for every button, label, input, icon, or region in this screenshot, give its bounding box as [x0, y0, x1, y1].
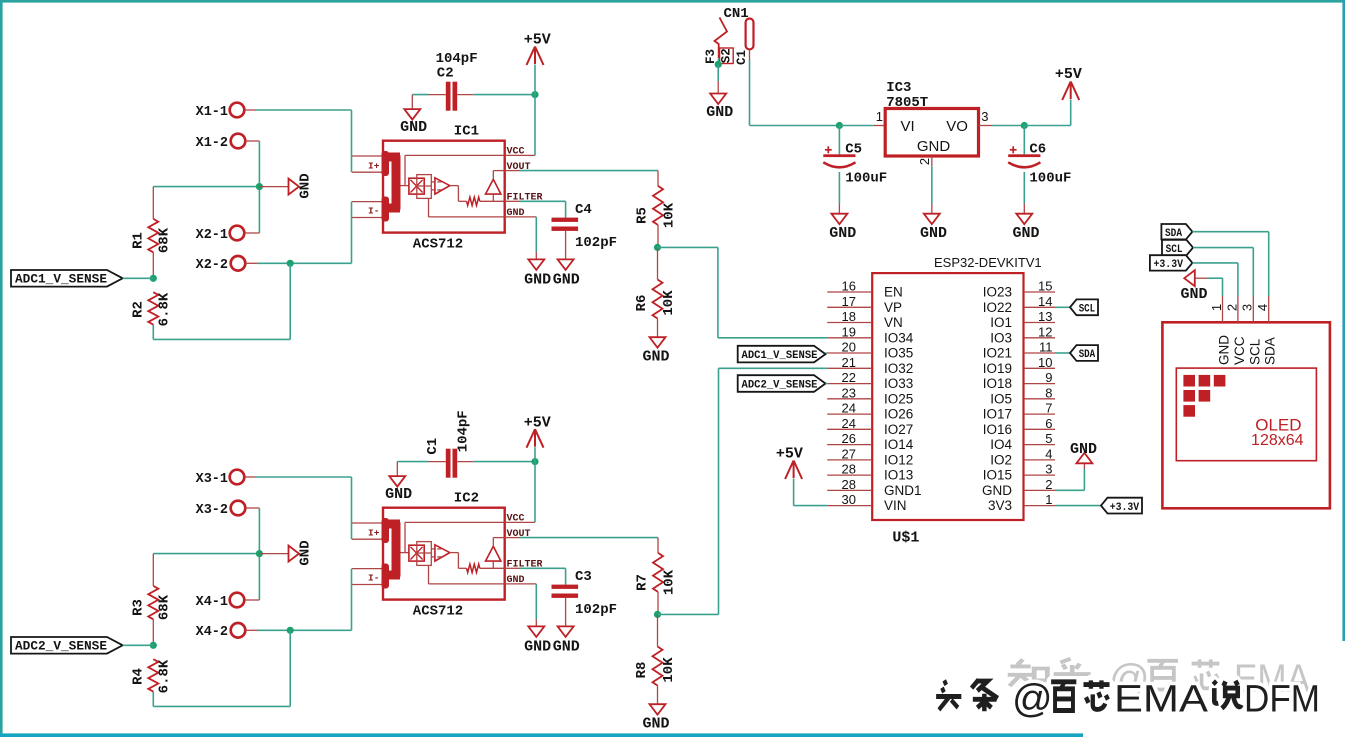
svg-text:GND: GND: [829, 225, 856, 242]
wire: [520, 537, 658, 539]
net label ADC2_V_SENSE: [11, 637, 123, 654]
svg-text:EN: EN: [884, 285, 903, 300]
hall sensor: [409, 545, 424, 561]
wire: [1192, 231, 1268, 233]
svg-text:10K: 10K: [661, 290, 677, 316]
svg-text:GND: GND: [642, 716, 669, 733]
wire: [534, 65, 536, 95]
svg-text:GND: GND: [298, 540, 314, 565]
svg-text:16: 16: [842, 279, 856, 294]
svg-text:GND: GND: [1012, 225, 1039, 242]
pin I-: [352, 201, 383, 203]
power +5V: [534, 429, 536, 447]
svg-text:GND: GND: [524, 271, 551, 288]
svg-text:C3: C3: [575, 569, 592, 585]
svg-text:GND: GND: [920, 225, 947, 242]
svg-text:C6: C6: [1029, 142, 1046, 158]
pin 13 IO1: [1024, 322, 1056, 324]
ground: [710, 94, 726, 105]
svg-text:28: 28: [842, 477, 856, 492]
connector X1-2: [231, 134, 246, 149]
svg-text:IO1: IO1: [990, 315, 1012, 330]
pin 26 IO14: [827, 444, 872, 446]
pin 9 IO18: [1024, 383, 1056, 385]
svg-text:U$1: U$1: [892, 530, 919, 547]
ground: [389, 476, 405, 487]
svg-text:IO14: IO14: [884, 437, 914, 452]
svg-text:I-: I-: [368, 206, 379, 217]
svg-text:IO17: IO17: [983, 407, 1012, 422]
svg-text:SCL: SCL: [1166, 244, 1183, 256]
pin 1 GND: [1222, 296, 1224, 322]
svg-text:5: 5: [1045, 431, 1052, 446]
svg-text:ADC1_V_SENSE: ADC1_V_SENSE: [742, 350, 818, 362]
svg-text:GND: GND: [917, 138, 951, 155]
svg-text:IO34: IO34: [884, 330, 914, 345]
svg-text:7: 7: [1045, 401, 1052, 416]
svg-text:R6: R6: [634, 295, 650, 312]
svg-text:19: 19: [842, 324, 856, 339]
ground esp32: [1055, 489, 1084, 491]
wire: [838, 172, 840, 204]
svg-text:C4: C4: [575, 202, 592, 218]
svg-text:X4-2: X4-2: [196, 625, 228, 640]
svg-text:GND: GND: [553, 271, 580, 288]
pin 3 IO15: [1024, 474, 1056, 476]
pin 30 VIN: [827, 505, 872, 507]
border bottom: [0, 733, 1083, 737]
svg-text:IO12: IO12: [884, 452, 913, 467]
svg-text:GND: GND: [298, 173, 314, 198]
svg-text:CN1: CN1: [724, 6, 749, 22]
op-amp triangle: [435, 178, 450, 194]
module OLED 128x64: [1162, 322, 1330, 508]
pin 19 IO34: [827, 337, 872, 339]
svg-text:IO27: IO27: [884, 422, 913, 437]
svg-text:12: 12: [1038, 324, 1052, 339]
svg-text:SCL: SCL: [1079, 304, 1096, 316]
svg-text:IO3: IO3: [990, 330, 1012, 345]
resistor R4 6.8K: [148, 659, 158, 691]
junction: [287, 627, 294, 634]
wire: [1055, 352, 1070, 354]
svg-text:104pF: 104pF: [455, 410, 471, 452]
svg-text:+5V: +5V: [524, 32, 551, 49]
ground: [924, 214, 940, 225]
svg-text:15: 15: [1038, 279, 1052, 294]
svg-text:VI: VI: [901, 118, 915, 135]
wire adc1: [717, 247, 719, 337]
svg-text:X3-2: X3-2: [196, 503, 228, 518]
wire: [246, 507, 260, 509]
junction: [1021, 122, 1028, 129]
connector X4-2: [231, 623, 246, 638]
svg-text:IO26: IO26: [884, 407, 913, 422]
regulator IC3 7805T: [885, 109, 978, 157]
svg-text:GND: GND: [524, 638, 551, 655]
svg-text:I-: I-: [368, 573, 379, 584]
svg-text:VP: VP: [884, 300, 902, 315]
op-amp triangle: [435, 545, 450, 561]
wire: [992, 125, 1024, 127]
wire: [245, 599, 260, 601]
wire: [246, 629, 258, 631]
pin 3 SCL: [1252, 296, 1254, 322]
svg-text:ACS712: ACS712: [413, 237, 463, 253]
oled logo pixels: [1183, 375, 1195, 387]
svg-text:6.8K: 6.8K: [157, 292, 173, 326]
ground: [650, 337, 666, 348]
svg-text:X1-2: X1-2: [196, 136, 228, 151]
svg-text:R8: R8: [634, 662, 650, 679]
capacitor C5 100uF: [838, 126, 840, 155]
pin 11 IO21: [1024, 352, 1056, 354]
wire: [245, 232, 260, 234]
wire: [1193, 247, 1253, 249]
svg-text:9: 9: [1045, 370, 1052, 385]
junction: [654, 611, 661, 618]
wire: [520, 200, 566, 202]
internal wire gnd: [428, 565, 430, 584]
pin 5 IO4: [1024, 444, 1056, 446]
wire: [749, 49, 751, 60]
net flag +3.3V: [1055, 505, 1101, 507]
wire: [153, 186, 259, 188]
power +5V: [534, 47, 536, 65]
ground: [528, 626, 544, 637]
pin 12 IO3: [1024, 337, 1056, 339]
ground: [528, 259, 544, 270]
wire: [1055, 306, 1070, 308]
svg-text:GND: GND: [553, 638, 580, 655]
svg-text:IC2: IC2: [454, 491, 479, 507]
svg-text:IC1: IC1: [454, 124, 479, 140]
ground: [259, 553, 288, 555]
svg-text:C1: C1: [425, 438, 441, 455]
svg-text:ADC2_V_SENSE: ADC2_V_SENSE: [742, 379, 818, 391]
svg-text:R4: R4: [131, 668, 147, 685]
svg-text:S2: S2: [720, 48, 734, 63]
resistor R3 68K: [152, 554, 154, 586]
pin I+: [352, 522, 383, 524]
svg-text:1: 1: [1045, 492, 1052, 507]
svg-text:10K: 10K: [661, 657, 677, 683]
svg-text:24: 24: [842, 401, 856, 416]
current conductor bar: [382, 151, 390, 176]
pin 23 IO25: [827, 398, 872, 400]
svg-text:+5V: +5V: [1055, 66, 1082, 83]
ground: [831, 214, 847, 225]
svg-text:100uF: 100uF: [1029, 171, 1071, 187]
wire: [520, 567, 566, 569]
pin 4 IO2: [1024, 459, 1056, 461]
svg-text:13: 13: [1038, 309, 1052, 324]
svg-text:X4-1: X4-1: [196, 595, 228, 610]
wire: [717, 64, 719, 81]
pin 28 GND1: [827, 489, 872, 491]
pin I-: [352, 568, 383, 570]
junction: [717, 58, 720, 64]
hall sensor: [409, 178, 424, 194]
wire: [289, 630, 291, 706]
svg-text:3: 3: [1240, 304, 1255, 311]
pin 22 IO33: [827, 383, 872, 385]
pin 7 IO17: [1024, 413, 1056, 415]
svg-text:X2-1: X2-1: [196, 228, 228, 243]
connector X2-2: [231, 256, 246, 271]
svg-text:14: 14: [1038, 294, 1052, 309]
svg-text:10K: 10K: [662, 569, 678, 595]
pin 10 IO19: [1024, 367, 1056, 369]
wire: [246, 140, 260, 142]
net flag SDA: [1070, 345, 1098, 361]
svg-text:DFM: DFM: [1244, 679, 1320, 721]
junction: [150, 275, 157, 282]
wire adc2: [718, 368, 720, 614]
net flag SCL oled: [1162, 240, 1193, 255]
svg-text:IO2: IO2: [990, 452, 1012, 467]
svg-text:VCC: VCC: [1232, 336, 1247, 365]
svg-text:10K: 10K: [662, 202, 678, 228]
border top: [0, 0, 1345, 3]
wire: [123, 644, 154, 646]
ground: [259, 186, 288, 188]
internal resistor: [467, 197, 480, 205]
svg-text:X3-1: X3-1: [196, 472, 228, 487]
watermark dark 头条 @百芯EMA说DFM: [936, 680, 961, 709]
svg-text:8: 8: [1045, 385, 1052, 400]
buffer triangle: [486, 179, 501, 194]
svg-text:R5: R5: [635, 207, 651, 224]
svg-text:128x64: 128x64: [1251, 432, 1304, 449]
svg-text:68K: 68K: [157, 594, 173, 620]
svg-text:100uF: 100uF: [845, 171, 887, 187]
svg-text:SCL: SCL: [1247, 338, 1262, 365]
wire: [245, 476, 257, 478]
svg-text:EMA: EMA: [1114, 679, 1209, 721]
net label ADC1_V_SENSE: [738, 346, 826, 363]
svg-text:+3.3V: +3.3V: [1110, 502, 1140, 514]
net flag +3.3V oled: [1150, 255, 1193, 270]
svg-text:SDA: SDA: [1263, 337, 1278, 365]
pin 24 IO26: [827, 413, 872, 415]
svg-text:IO22: IO22: [983, 300, 1012, 315]
wire: [565, 231, 567, 260]
svg-text:@: @: [1012, 677, 1053, 721]
svg-text:R1: R1: [131, 232, 147, 249]
svg-text:3: 3: [1045, 462, 1052, 477]
internal wire: [450, 552, 459, 554]
svg-text:30: 30: [842, 492, 856, 507]
wire: [289, 263, 291, 339]
svg-text:IO25: IO25: [884, 391, 913, 406]
pin 24 IO27: [827, 428, 872, 430]
wire: [535, 584, 537, 619]
svg-text:F3: F3: [704, 49, 718, 64]
wire: [565, 598, 567, 627]
net label ADC1_V_SENSE: [11, 270, 123, 287]
junction: [654, 244, 661, 251]
junction: [287, 260, 294, 267]
svg-text:IO16: IO16: [983, 422, 1012, 437]
svg-text:+5V: +5V: [524, 414, 551, 431]
svg-text:I+: I+: [368, 160, 380, 171]
wire: [1192, 262, 1238, 264]
wire: [535, 217, 537, 252]
wire: [520, 170, 658, 172]
svg-text:7805T: 7805T: [886, 95, 928, 111]
pin 6 IO16: [1024, 428, 1056, 430]
svg-text:R2: R2: [131, 301, 147, 318]
wire: [246, 262, 258, 264]
svg-text:22: 22: [842, 370, 856, 385]
resistor R2 6.8K: [148, 292, 158, 324]
svg-text:IO35: IO35: [884, 346, 913, 361]
svg-text:ADC1_V_SENSE: ADC1_V_SENSE: [15, 273, 107, 287]
internal wire gnd: [428, 198, 430, 217]
pin 2 VCC: [1237, 296, 1239, 322]
svg-text:10: 10: [1038, 355, 1052, 370]
svg-text:IC3: IC3: [886, 80, 911, 96]
power +5V vin: [793, 461, 795, 479]
svg-text:C1: C1: [735, 50, 749, 65]
svg-text:2: 2: [917, 158, 932, 165]
net flag SDA oled: [1161, 224, 1192, 239]
pin 16 EN: [827, 291, 872, 293]
svg-text:4: 4: [1255, 304, 1270, 311]
svg-text:IO4: IO4: [990, 437, 1012, 452]
svg-text:GND: GND: [385, 486, 412, 503]
pin 17 VP: [827, 306, 872, 308]
connector X3-2: [231, 501, 246, 516]
svg-text:VIN: VIN: [884, 498, 907, 513]
svg-text:GND: GND: [400, 119, 427, 136]
pin 28 IO13: [827, 474, 872, 476]
svg-text:IO5: IO5: [990, 391, 1012, 406]
ground: [558, 626, 574, 637]
wire: [534, 447, 536, 461]
svg-text:18: 18: [842, 309, 856, 324]
svg-text:IO33: IO33: [884, 376, 913, 391]
svg-text:R3: R3: [131, 599, 147, 616]
svg-text:1: 1: [1209, 304, 1224, 311]
buffer triangle: [486, 546, 501, 561]
junction: [256, 183, 263, 190]
svg-text:X1-1: X1-1: [196, 105, 228, 120]
capacitor C4 102pF: [552, 218, 579, 222]
svg-text:SDA: SDA: [1079, 349, 1096, 361]
watermark gray 知乎 @百芯EMA: [1008, 659, 1048, 686]
svg-text:2: 2: [1045, 477, 1052, 492]
ground: [558, 259, 574, 270]
pin S2: [720, 48, 734, 64]
capacitor C3 102pF: [552, 585, 579, 589]
svg-text:IO23: IO23: [983, 285, 1012, 300]
ground: [650, 704, 666, 715]
svg-text:GND: GND: [1217, 335, 1232, 365]
wire: [1024, 125, 1070, 127]
junction: [256, 550, 263, 557]
connector X3-1: [230, 470, 245, 485]
op-amp IC2 ACS712: [383, 508, 505, 600]
wire: [839, 125, 873, 127]
resistor R8 10K: [657, 614, 659, 646]
svg-text:102pF: 102pF: [575, 235, 617, 251]
ground: [1016, 214, 1032, 225]
svg-text:ADC2_V_SENSE: ADC2_V_SENSE: [15, 640, 107, 654]
svg-text:28: 28: [842, 462, 856, 477]
capacitor C6 100uF: [1023, 126, 1025, 155]
connector X1-1: [230, 103, 245, 118]
svg-text:17: 17: [842, 294, 856, 309]
svg-text:4: 4: [1045, 446, 1052, 461]
svg-text:+5V: +5V: [776, 446, 803, 463]
svg-text:R7: R7: [635, 574, 651, 591]
pin 4 SDA: [1268, 296, 1270, 322]
junction: [150, 642, 157, 649]
svg-text:SDA: SDA: [1165, 228, 1182, 240]
pin 27 IO12: [827, 459, 872, 461]
svg-text:27: 27: [842, 446, 856, 461]
svg-text:X2-2: X2-2: [196, 258, 228, 273]
border left: [0, 0, 3, 737]
internal wire: [405, 154, 505, 156]
svg-text:6: 6: [1045, 416, 1052, 431]
power +5V: [1070, 82, 1072, 100]
pin 15 IO23: [1024, 291, 1056, 293]
wire: [1208, 277, 1223, 279]
internal resistor: [467, 564, 480, 572]
ground oled: [1184, 270, 1195, 286]
wire: [153, 553, 259, 555]
svg-text:IO13: IO13: [884, 468, 913, 483]
wire: [457, 461, 473, 463]
svg-text:GND: GND: [642, 349, 669, 366]
pin I+: [352, 155, 383, 157]
pin 21 IO32: [827, 367, 872, 369]
svg-text:GND: GND: [1180, 286, 1207, 303]
op-amp IC1 ACS712: [383, 141, 505, 233]
svg-text:20: 20: [842, 340, 856, 355]
module U$1 ESP32-DEVKITV1: [872, 273, 1023, 520]
internal wire: [450, 185, 459, 187]
junction: [531, 91, 538, 98]
net flag SCL: [1070, 299, 1098, 315]
svg-text:GND: GND: [706, 104, 733, 121]
svg-text:ESP32-DEVKITV1: ESP32-DEVKITV1: [934, 255, 1042, 270]
junction: [531, 458, 538, 465]
svg-text:102pF: 102pF: [575, 602, 617, 618]
svg-text:VO: VO: [946, 118, 968, 135]
wire: [1023, 172, 1025, 204]
pin 1 3V3: [1024, 505, 1056, 507]
internal wire: [405, 521, 505, 523]
svg-text:IO18: IO18: [983, 376, 1012, 391]
wire: [931, 166, 933, 203]
ground: [404, 109, 420, 120]
svg-text:IO21: IO21: [983, 346, 1012, 361]
connector X2-1: [230, 226, 245, 241]
wire: [123, 277, 154, 279]
svg-text:C5: C5: [845, 142, 862, 158]
svg-text:11: 11: [1039, 340, 1053, 355]
svg-text:I+: I+: [368, 527, 380, 538]
svg-text:GND1: GND1: [884, 483, 922, 498]
svg-text:1: 1: [876, 109, 883, 124]
border right: [1342, 0, 1345, 641]
wire: [429, 461, 446, 463]
svg-text:2: 2: [1224, 304, 1239, 311]
